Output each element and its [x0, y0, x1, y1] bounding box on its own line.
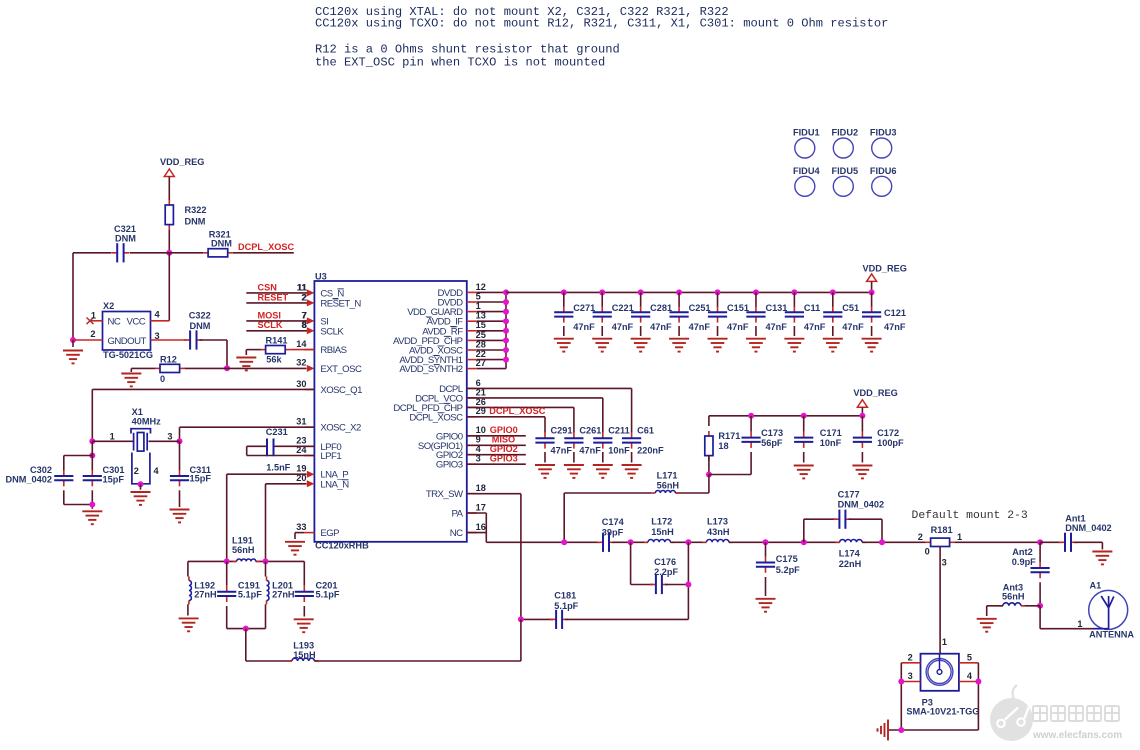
capacitor C174 39pF [597, 533, 615, 552]
svg-text:C131: C131 [765, 303, 787, 313]
svg-text:47nF: 47nF [689, 322, 711, 332]
wire R322 to junction [168, 230, 170, 253]
svg-text:4: 4 [155, 310, 161, 320]
svg-text:GPIO2: GPIO2 [490, 444, 518, 454]
svg-text:2: 2 [301, 292, 306, 302]
node L193 tap [243, 626, 249, 632]
svg-text:www.elecfans.com: www.elecfans.com [1032, 730, 1122, 741]
svg-text:DNM: DNM [115, 233, 136, 243]
svg-text:19: 19 [296, 464, 306, 474]
svg-text:12: 12 [476, 282, 486, 292]
svg-text:15pF: 15pF [103, 475, 125, 485]
svg-text:DNM: DNM [185, 217, 206, 227]
svg-text:GPIO3: GPIO3 [490, 454, 518, 464]
svg-text:GPIO3: GPIO3 [436, 460, 463, 471]
wire C321 row [73, 252, 111, 254]
svg-text:AVDD_SYNTH2: AVDD_SYNTH2 [399, 364, 462, 375]
node X2 pin2 [70, 337, 76, 343]
svg-text:SCLK: SCLK [258, 320, 283, 330]
svg-text:18: 18 [718, 441, 728, 451]
svg-text:31: 31 [296, 417, 306, 427]
resistor R322 [165, 200, 173, 230]
svg-text:CC120x using TCXO: do not moun: CC120x using TCXO: do not mount R12, R32… [315, 17, 888, 31]
svg-text:1: 1 [110, 432, 115, 442]
svg-text:220nF: 220nF [637, 445, 664, 455]
inductor L191 56nH [233, 559, 260, 561]
svg-text:TRX_SW: TRX_SW [426, 489, 464, 500]
svg-text:15nH: 15nH [293, 650, 316, 660]
wire DCPL_VCO to C211 [467, 397, 603, 399]
svg-text:DNM_0402: DNM_0402 [6, 475, 52, 485]
svg-text:5.2pF: 5.2pF [776, 565, 800, 575]
svg-text:16: 16 [476, 522, 486, 532]
capacitor C173 56pF [748, 413, 754, 419]
capacitor C177 DNM_0402 (bypass over L174) [803, 519, 805, 542]
svg-text:56k: 56k [266, 355, 282, 365]
svg-text:DNM_0402: DNM_0402 [1065, 523, 1111, 533]
capacitor C11 47nF [791, 289, 797, 295]
IC U3 CC120xRHB [314, 281, 466, 542]
svg-text:C171: C171 [820, 428, 842, 438]
svg-text:VDD_REG: VDD_REG [853, 388, 897, 398]
svg-text:11: 11 [297, 282, 307, 292]
net GPIO2 [467, 454, 526, 456]
svg-text:GPIO0: GPIO0 [490, 425, 518, 435]
node TRX_SW/C181 [518, 616, 524, 622]
svg-text:4: 4 [967, 671, 973, 681]
wire LNA_P [227, 473, 307, 475]
svg-text:the EXT_OSC pin when TCXO is n: the EXT_OSC pin when TCXO is not mounted [315, 56, 605, 70]
capacitor C61 220nF [622, 432, 641, 448]
svg-text:30: 30 [296, 379, 306, 389]
node X1 gnd pin [138, 481, 144, 487]
node C176/C181 tie [685, 582, 691, 588]
svg-text:C51: C51 [842, 303, 859, 313]
wire junction to R321 [169, 252, 203, 254]
svg-text:56nH: 56nH [657, 481, 680, 491]
wire gnd to R141 [246, 349, 261, 351]
capacitor C311 15pF [179, 441, 181, 470]
svg-text:17: 17 [476, 502, 486, 512]
svg-text:DNM_0402: DNM_0402 [838, 500, 884, 510]
svg-text:39pF: 39pF [602, 528, 624, 538]
net MOSI [246, 320, 307, 322]
ground (EGP) [295, 532, 304, 534]
svg-text:DNM: DNM [211, 238, 232, 248]
pin 4 X2 [151, 320, 170, 322]
svg-text:CSN: CSN [258, 282, 278, 292]
capacitor C201 5.1pF [303, 561, 305, 585]
svg-text:FIDU4: FIDU4 [793, 166, 820, 176]
svg-text:RESET: RESET [258, 292, 289, 302]
svg-text:R141: R141 [266, 335, 288, 345]
svg-text:SMA-10V21-TGG: SMA-10V21-TGG [906, 707, 979, 717]
svg-text:2: 2 [918, 532, 923, 542]
capacitor C181 5.1pF [521, 618, 553, 620]
svg-text:FIDU5: FIDU5 [832, 166, 859, 176]
svg-text:56nH: 56nH [1002, 592, 1025, 602]
svg-text:FIDU6: FIDU6 [870, 166, 897, 176]
wire DCPL to C61 [467, 387, 632, 389]
svg-text:SCLK: SCLK [320, 326, 344, 337]
wire C191/L201 bottom tie [227, 628, 266, 630]
svg-text:C231: C231 [266, 427, 288, 437]
svg-text:3: 3 [942, 558, 947, 568]
svg-text:14: 14 [296, 339, 307, 349]
resistor R181 0 (3-pin) [926, 538, 955, 546]
svg-text:47nF: 47nF [842, 322, 864, 332]
svg-text:VDD_REG: VDD_REG [160, 157, 204, 167]
svg-text:R322: R322 [185, 205, 207, 215]
pin 5 P3 [959, 662, 979, 664]
svg-text:47nF: 47nF [650, 322, 672, 332]
net GPIO3 [467, 463, 526, 465]
net RESET [246, 302, 307, 304]
capacitor C121 47nF [869, 289, 875, 295]
svg-text:3: 3 [155, 331, 160, 341]
svg-text:FIDU1: FIDU1 [793, 128, 820, 138]
wire C176 node vertical [687, 542, 689, 619]
wire L172 to L173 [670, 541, 706, 543]
wire R12 to EXT_OSC pin [185, 367, 307, 369]
wire PA to C174 [486, 541, 600, 543]
svg-text:56nH: 56nH [232, 545, 255, 555]
svg-text:C261: C261 [579, 426, 601, 436]
wire VCC vertical to X2 pin4 [168, 253, 170, 321]
svg-text:2: 2 [908, 652, 913, 662]
wire left vertical to X2 gnd node [72, 253, 74, 340]
svg-text:7: 7 [301, 310, 306, 320]
svg-text:5.1pF: 5.1pF [238, 590, 262, 600]
net TRX_SW [467, 493, 521, 495]
svg-text:22nH: 22nH [839, 559, 862, 569]
wire to antenna [1039, 606, 1041, 629]
svg-text:DCPL_XOSC: DCPL_XOSC [409, 412, 463, 423]
wire P3 shield right [977, 663, 979, 730]
ground (R141 left) [245, 350, 247, 355]
svg-text:DCPL_XOSC: DCPL_XOSC [238, 242, 295, 252]
svg-text:C322: C322 [189, 311, 211, 321]
svg-text:1: 1 [957, 532, 962, 542]
svg-text:MOSI: MOSI [258, 310, 281, 320]
wire R141 to RBIAS [290, 349, 314, 351]
svg-text:C151: C151 [727, 303, 749, 313]
svg-text:X2: X2 [103, 301, 114, 311]
capacitor C151 47nF [715, 289, 721, 295]
svg-text:L174: L174 [839, 549, 861, 559]
wire VDD_REG rail [506, 291, 872, 293]
svg-text:47nF: 47nF [765, 322, 787, 332]
svg-text:15pF: 15pF [190, 473, 212, 483]
inductor L173 43nH [703, 540, 733, 543]
wire L173 to L174 [729, 541, 840, 543]
svg-text:R12: R12 [160, 355, 177, 365]
svg-text:3: 3 [167, 432, 172, 442]
node C176 right riser [685, 539, 691, 545]
svg-text:TG-5021CG: TG-5021CG [103, 350, 153, 360]
resistor R171 18 [708, 416, 710, 426]
svg-text:1: 1 [1077, 619, 1082, 629]
svg-text:C174: C174 [602, 517, 625, 527]
inductor L193 15nH [245, 629, 247, 661]
capacitor C51 47nF [830, 289, 836, 295]
svg-text:CC120xRHB: CC120xRHB [315, 541, 369, 551]
inductor L192 27nH [187, 561, 189, 576]
svg-text:47nF: 47nF [804, 322, 826, 332]
wire gnd to R12 [131, 367, 155, 369]
node LNA_P/C191 [224, 558, 230, 564]
svg-text:FIDU2: FIDU2 [832, 128, 859, 138]
svg-text:R171: R171 [718, 431, 740, 441]
wire P3 shield bottom [888, 729, 978, 731]
inductor L172 15nH [644, 540, 674, 543]
svg-text:100pF: 100pF [877, 438, 904, 448]
pin 2 X2 [73, 339, 103, 341]
svg-text:0: 0 [160, 374, 165, 384]
U3 passive left pin stubs [304, 349, 314, 351]
U3 right pin stubs [467, 291, 477, 293]
svg-text:NC: NC [450, 528, 463, 539]
capacitor C175 5.2pF [765, 542, 767, 556]
svg-text:L172: L172 [651, 517, 672, 527]
node C177 left tap [801, 539, 807, 545]
node Ant3 tee [1037, 603, 1043, 609]
svg-text:PA: PA [452, 509, 464, 520]
node L171 tap [561, 539, 567, 545]
wire L191 row [188, 560, 237, 562]
svg-text:2.2pF: 2.2pF [654, 567, 678, 577]
svg-text:6: 6 [476, 378, 481, 388]
wire C174 to L172 [612, 541, 648, 543]
node DCPL_XOSC junction [166, 250, 172, 256]
wire LNA_N [266, 483, 307, 485]
node bus junctions [503, 289, 509, 295]
svg-text:47nF: 47nF [612, 322, 634, 332]
pin 2 P3 [901, 662, 920, 664]
node EXT_OSC [224, 365, 230, 371]
svg-text:27nH: 27nH [272, 590, 295, 600]
capacitor C191 5.1pF [226, 561, 228, 585]
svg-text:ANTENNA: ANTENNA [1089, 630, 1134, 640]
svg-text:0: 0 [925, 546, 930, 556]
oscillator X2 TG-5021CG [103, 312, 151, 351]
wire XOSC_Q1 [92, 388, 314, 390]
svg-text:Default mount 2-3: Default mount 2-3 [912, 510, 1028, 522]
svg-text:C221: C221 [612, 303, 634, 313]
svg-text:LPF1: LPF1 [320, 451, 341, 462]
svg-text:27nH: 27nH [194, 590, 217, 600]
svg-text:RESET_N: RESET_N [320, 298, 361, 309]
svg-text:L193: L193 [293, 641, 314, 651]
wire DCPL_XOSC to C291 [467, 416, 545, 418]
wire XOSC_X2 [180, 426, 315, 428]
svg-text:C301: C301 [103, 465, 125, 475]
svg-text:32: 32 [296, 358, 306, 368]
resistor R321 [203, 249, 233, 257]
svg-text:56pF: 56pF [761, 438, 783, 448]
node LNA_N/L201 [263, 558, 269, 564]
capacitor C172 100pF [859, 413, 865, 419]
svg-text:LNA_N: LNA_N [320, 479, 349, 490]
inductor L174 22nH [836, 540, 866, 543]
stub NC [467, 532, 487, 534]
svg-text:R12 is a 0 Ohms shunt resistor: R12 is a 0 Ohms shunt resistor that grou… [315, 43, 620, 57]
svg-text:10: 10 [476, 425, 486, 435]
capacitor C171 10nF [801, 413, 807, 419]
ground (R12 left) [130, 368, 132, 372]
capacitor C271 47nF [561, 289, 567, 295]
svg-text:1: 1 [942, 637, 947, 647]
node X1 pin1 [89, 438, 95, 444]
svg-text:RBIAS: RBIAS [320, 345, 346, 356]
svg-text:C281: C281 [650, 303, 672, 313]
svg-text:EGP: EGP [320, 528, 339, 539]
svg-text:XOSC_X2: XOSC_X2 [320, 423, 361, 434]
net MISO [467, 444, 526, 446]
svg-text:L171: L171 [657, 471, 678, 481]
watermark logo [990, 685, 1033, 741]
svg-text:3: 3 [908, 671, 913, 681]
svg-text:33: 33 [296, 522, 306, 532]
svg-text:C173: C173 [761, 428, 783, 438]
inductor Ant3 56nH [1023, 605, 1040, 607]
svg-text:C11: C11 [804, 303, 820, 313]
node X1 pin3 [177, 438, 183, 444]
wire DVDD bus vertical [505, 292, 507, 368]
capacitor C322 [184, 330, 202, 349]
svg-text:C291: C291 [551, 426, 573, 436]
svg-text:8: 8 [301, 320, 306, 330]
svg-text:C271: C271 [573, 303, 595, 313]
wire L174 to R181 [862, 541, 926, 543]
svg-text:C177: C177 [838, 490, 860, 500]
capacitor Ant1 DNM_0402 [1040, 541, 1062, 543]
svg-text:4: 4 [154, 466, 160, 476]
wire DCPL_PFD_CHP to C261 [467, 406, 574, 408]
svg-text:L173: L173 [707, 517, 728, 527]
svg-text:VCC: VCC [127, 317, 146, 328]
wire R321 to net label [233, 252, 294, 254]
svg-text:Ant1: Ant1 [1065, 514, 1085, 524]
wire VDD rail (PA) [709, 415, 863, 417]
svg-text:10nF: 10nF [608, 445, 630, 455]
svg-text:XOSC_Q1: XOSC_Q1 [320, 385, 362, 396]
ground (C301) [82, 511, 102, 524]
svg-text:47nF: 47nF [727, 322, 749, 332]
svg-text:C181: C181 [554, 591, 576, 601]
net SCLK [246, 330, 307, 332]
svg-text:47nF: 47nF [573, 322, 595, 332]
svg-text:2: 2 [90, 329, 95, 339]
svg-text:5.1pF: 5.1pF [554, 601, 578, 611]
svg-text:10nF: 10nF [820, 438, 842, 448]
node C301 bottom [89, 502, 95, 508]
inductor L201 27nH [265, 561, 267, 576]
svg-text:2: 2 [134, 466, 139, 476]
inductor L171 56nH [708, 475, 710, 494]
svg-text:NC: NC [108, 317, 121, 328]
node C177 right [879, 539, 885, 545]
svg-text:FIDU3: FIDU3 [870, 128, 897, 138]
svg-text:47nF: 47nF [579, 445, 601, 455]
node C302 top [89, 453, 95, 459]
svg-text:GNDOUT: GNDOUT [108, 336, 147, 347]
node R171 bottom [706, 472, 712, 478]
capacitor C281 47nF [638, 289, 644, 295]
svg-text:5: 5 [967, 652, 972, 662]
svg-text:Ant2: Ant2 [1012, 547, 1032, 557]
ground (X1) [140, 484, 142, 490]
node C176 left [628, 539, 634, 545]
net GPIO0 [467, 435, 526, 437]
svg-text:47nF: 47nF [551, 445, 573, 455]
capacitor C291 47nF [535, 432, 554, 448]
node C175 tap [763, 539, 769, 545]
wire C322 to EXT_OSC node [200, 339, 228, 341]
capacitor C261 47nF [564, 432, 583, 448]
wire R181 pin3 to P3 [939, 547, 941, 654]
capacitor Ant2 0.9pF [1039, 542, 1041, 562]
svg-text:C121: C121 [884, 308, 906, 318]
node antenna tee [1037, 539, 1043, 545]
svg-text:R181: R181 [931, 525, 953, 535]
net CSN [246, 292, 307, 294]
pin 1 X2 (no connect) [90, 320, 103, 322]
pin 3 X2 [151, 339, 187, 341]
svg-text:A1: A1 [1090, 581, 1102, 591]
wire R181 pin1 to antenna node [955, 541, 1041, 543]
svg-text:C176: C176 [654, 557, 676, 567]
svg-text:5.1pF: 5.1pF [316, 590, 340, 600]
ground (P3 shield) [878, 720, 889, 741]
ground (X2 pin2) [72, 340, 74, 347]
svg-text:EXT_OSC: EXT_OSC [320, 364, 362, 375]
capacitor C131 47nF [753, 289, 759, 295]
svg-text:DCPL_XOSC: DCPL_XOSC [489, 406, 546, 416]
svg-text:C211: C211 [608, 426, 629, 436]
resistor R141 [261, 346, 291, 354]
svg-text:47nF: 47nF [884, 322, 906, 332]
capacitor C221 47nF [599, 289, 605, 295]
capacitor C251 47nF [676, 289, 682, 295]
svg-text:18: 18 [476, 483, 486, 493]
net PA [467, 512, 487, 514]
svg-text:1.5nF: 1.5nF [266, 462, 290, 472]
capacitor C301 15pF [83, 470, 102, 486]
capacitor C321 [111, 243, 129, 262]
svg-text:C61: C61 [637, 426, 654, 436]
svg-text:C251: C251 [689, 303, 711, 313]
svg-text:C172: C172 [877, 428, 899, 438]
capacitor C302 DNM_0402 [91, 441, 93, 470]
pin 3 P3 [901, 681, 920, 683]
svg-text:DNM: DNM [190, 321, 211, 331]
svg-text:C302: C302 [30, 465, 52, 475]
wire P3 shield left [900, 663, 902, 730]
capacitor C176 2.2pF [630, 542, 632, 584]
svg-text:40MHz: 40MHz [132, 416, 162, 426]
svg-text:VDD_REG: VDD_REG [863, 264, 907, 274]
wire VDD_REG to R322 [168, 177, 170, 202]
svg-text:1: 1 [91, 311, 96, 321]
svg-text:C175: C175 [776, 554, 798, 564]
pin 4 P3 [959, 681, 979, 683]
connector P3 SMA-10V21-TGG [921, 654, 959, 691]
capacitor C211 10nF [593, 432, 612, 448]
capacitor C231 (between LPF0/LPF1) [274, 445, 315, 447]
svg-text:U3: U3 [315, 272, 327, 282]
resistor R12 [155, 364, 185, 372]
